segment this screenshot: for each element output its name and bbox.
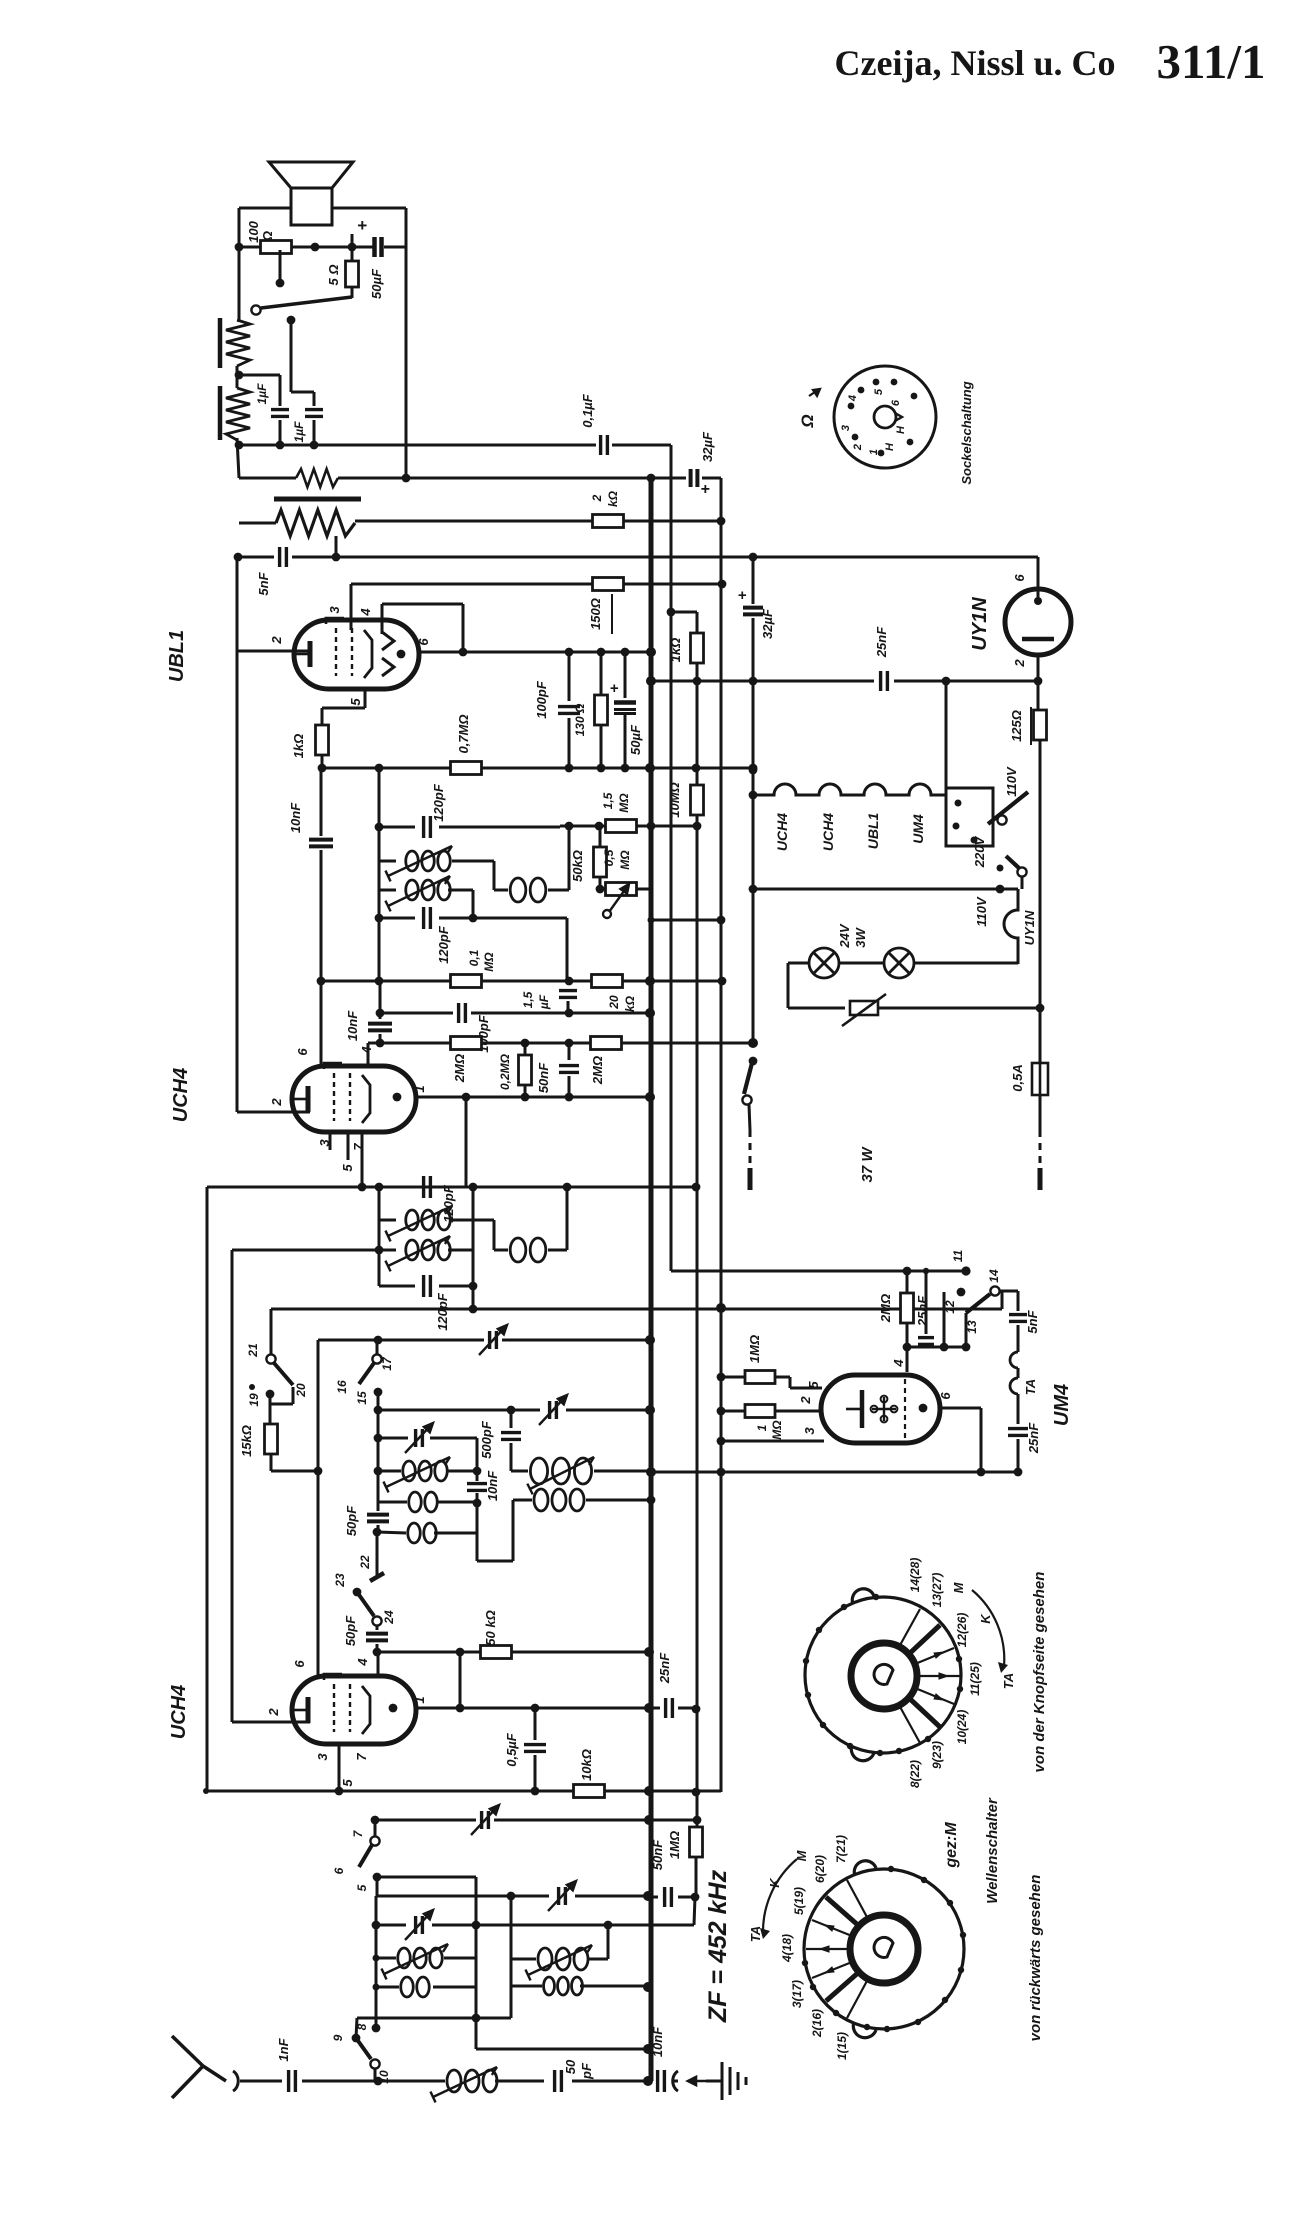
wire coilL1 right lead (444, 1957, 476, 1960)
oscillator coil LW (403, 1461, 447, 1481)
contact aux (249, 1384, 255, 1390)
wire pin5 stub (347, 1132, 350, 1160)
resistor 20kΩ (592, 975, 623, 988)
junction (472, 1921, 481, 1930)
svg-text:500pF: 500pF (479, 1420, 494, 1459)
wire IF1 bottom b (439, 917, 567, 920)
svg-text:2MΩ: 2MΩ (878, 1294, 893, 1323)
svg-text:5(19): 5(19) (792, 1887, 806, 1915)
resistor 1MΩ (RF) (690, 1827, 703, 1857)
antenna (172, 2036, 226, 2098)
svg-text:20: 20 (607, 995, 621, 1010)
svg-text:50pF: 50pF (344, 1505, 359, 1536)
wire 10nF-osc bottom lead (476, 1493, 479, 1503)
wire antenna a (240, 2080, 282, 2083)
wire tap to 1µF (239, 374, 280, 377)
svg-text:120pF: 120pF (441, 1184, 456, 1223)
junction (374, 2077, 383, 2086)
wire 25nF-4 top lead (1017, 1394, 1020, 1424)
junction (311, 243, 320, 252)
wire coilR1 right lead (588, 1958, 608, 1961)
wire contact stub (279, 250, 282, 283)
svg-text:1µF: 1µF (292, 421, 306, 443)
junction (374, 1406, 383, 1415)
contact 9 (352, 2034, 361, 2043)
mains switch pivot (742, 1095, 751, 1104)
wire coilA right lead (447, 1470, 477, 1473)
contact 5 (373, 1873, 382, 1882)
junction (692, 1705, 701, 1714)
svg-text:10nF: 10nF (345, 1010, 360, 1041)
IF1 primary coil (406, 851, 450, 871)
tube UCH4 (mixer) (292, 1676, 416, 1744)
wire stub y920 (651, 919, 721, 922)
disc2 spokes (806, 1880, 868, 2018)
resistor 2MΩ (UM4) (901, 1293, 914, 1323)
resistor 5Ω (346, 261, 359, 287)
junction (647, 822, 656, 831)
socket pins (848, 379, 918, 457)
wire AVC line a (238, 556, 274, 559)
svg-text:13(27): 13(27) (930, 1573, 944, 1608)
wire rail x696 b (696, 815, 699, 1826)
svg-text:4: 4 (358, 608, 373, 617)
junction (749, 791, 758, 800)
junction (718, 580, 727, 589)
junction (749, 885, 758, 894)
wire main chassis bus (649, 478, 654, 2081)
wire feedback2 left lead (494, 1249, 508, 1252)
svg-text:3: 3 (327, 606, 342, 614)
junction (376, 1009, 385, 1018)
svg-text:1MΩ: 1MΩ (667, 1831, 682, 1859)
wire feedback left lead (494, 889, 508, 892)
svg-text:von der Knopfseite gesehen: von der Knopfseite gesehen (1031, 1572, 1048, 1773)
wire x378 seg a (377, 1410, 380, 1438)
svg-text:8(22): 8(22) (908, 1760, 922, 1788)
label underline 125 (1030, 707, 1032, 745)
junction (565, 1009, 574, 1018)
resistor 125Ω (1034, 710, 1047, 740)
svg-text:1,5: 1,5 (521, 991, 535, 1008)
wire feedback line left (239, 477, 296, 480)
wire 1,5µF bottom lead (567, 1001, 570, 1013)
junction (996, 885, 1005, 894)
IF2 feedback coil (510, 1238, 546, 1262)
variable capacitor (RF tuning) (482, 1811, 489, 1829)
wire x376 switch rail (375, 1896, 378, 2028)
UY1N heater bump (1004, 889, 1018, 964)
wire 25nF-3 top lead (925, 1271, 928, 1334)
svg-text:21: 21 (246, 1343, 260, 1358)
svg-text:120pF: 120pF (436, 925, 451, 964)
junction (903, 1267, 912, 1276)
mains lead end left (748, 1168, 753, 1190)
oscillator coupling coil (534, 1489, 584, 1511)
wire osc anode line b (511, 1651, 649, 1654)
wire contact 2 drop (290, 320, 293, 392)
wire 2MΩ bottom lead (906, 1323, 909, 1372)
svg-text:1µF: 1µF (255, 383, 269, 405)
wire rail corner (720, 1791, 723, 1792)
capacitor 1µF (b) (305, 410, 323, 417)
trimmer capacitor (osc LW) arrow (405, 1423, 433, 1453)
wire 1µF-b bottom lead (313, 420, 316, 445)
wire coilE drop (512, 1500, 515, 1561)
svg-text:MΩ: MΩ (482, 952, 496, 972)
heater chain (753, 784, 946, 795)
trimmer capacitor (ant MW) (559, 1887, 566, 1905)
svg-text:9(23): 9(23) (930, 1741, 944, 1769)
wire heater return a (651, 680, 874, 683)
wire UCH4-2 cathode (338, 1744, 341, 1791)
wire UM4 line y1271 (671, 1270, 966, 1273)
svg-text:Wellenschalter: Wellenschalter (984, 1797, 1001, 1904)
svg-text:2(16): 2(16) (810, 2009, 824, 2038)
capacitor 10nF (det) (368, 1024, 392, 1031)
resistor 1kΩ (bus) (691, 633, 704, 663)
wire 1MΩ top lead (696, 1826, 699, 1827)
label underline (611, 594, 613, 634)
junction (314, 1467, 323, 1476)
IF2 primary coil (406, 1210, 450, 1230)
svg-text:Sockelschaltung: Sockelschaltung (959, 381, 974, 484)
junction (621, 648, 630, 657)
wire UM4 pin5 (790, 1387, 822, 1390)
trimmer capacitor (ant LW) arrow (405, 1910, 433, 1940)
junction (693, 677, 702, 686)
capacitor 5nF (280, 547, 287, 567)
wire 50nF-b lead b (678, 1896, 695, 1899)
junction (962, 1343, 971, 1352)
wire UCH4-1 pin4 lead (367, 1043, 370, 1066)
resistor 2MΩ (a) (451, 1037, 482, 1050)
svg-text:+: + (700, 481, 709, 498)
arrow to ground (688, 2077, 706, 2085)
wire 5nF top lead (1017, 1291, 1020, 1311)
capacitor 50pF (b) (366, 1634, 388, 1641)
junction (318, 764, 327, 773)
junction (645, 976, 655, 986)
wire UM4 pin6 lead (940, 1407, 981, 1410)
wire UCH4-1 pin2 (237, 1111, 310, 1114)
capacitor 1nF (289, 2070, 296, 2092)
wire 15kΩ to rail (271, 1470, 318, 1473)
wire trimmer line b (430, 1437, 477, 1440)
wire link y2049 (476, 2048, 648, 2051)
svg-text:UCH4: UCH4 (168, 1685, 190, 1739)
svg-text:120pF: 120pF (431, 783, 446, 822)
wire IF2 left rail (378, 1187, 381, 1286)
svg-text:6: 6 (890, 399, 902, 406)
svg-text:6: 6 (295, 1048, 310, 1056)
selector dot c (971, 837, 978, 844)
wire pin5 jog (322, 707, 365, 710)
wire feedback2 rise (566, 1187, 569, 1250)
disc bump top (852, 1589, 874, 1604)
svg-text:311/1: 311/1 (1157, 34, 1266, 89)
capacitor 10nF (osc) (467, 1484, 487, 1491)
wire coilL1 left lead (376, 1957, 396, 1960)
tube socket diagram (834, 366, 936, 468)
wire mains lead left (749, 1105, 750, 1130)
disc keyhole (874, 1664, 893, 1684)
svg-text:17: 17 (380, 1356, 394, 1371)
wave switch disc (knob side) (805, 1597, 961, 1753)
svg-text:H: H (884, 442, 896, 451)
wire 50kΩ bottom lead (599, 876, 602, 888)
junction (645, 1405, 655, 1415)
junction (456, 1648, 465, 1657)
wire mixer anode (416, 1707, 660, 1710)
wire 100pF top lead (568, 652, 571, 701)
wire left branch (238, 208, 241, 247)
wire 500pF top lead (510, 1410, 513, 1428)
wire 13 stub (965, 1313, 968, 1347)
junction (565, 1093, 574, 1102)
svg-text:25nF: 25nF (657, 1652, 672, 1684)
wire x476 upper (476, 1438, 479, 1481)
junction (375, 1183, 384, 1192)
junction (521, 1039, 530, 1048)
wire x476 ant lower (475, 1925, 478, 2049)
junction (565, 977, 574, 986)
wire fuse line (1039, 740, 1042, 1063)
resistor 50kΩ (osc) (481, 1646, 512, 1659)
svg-text:UCH4: UCH4 (820, 813, 836, 851)
wire UM4 pin3 (721, 1440, 824, 1443)
wire 10nF to UCH4 pin6 (320, 850, 323, 1066)
junction (521, 1093, 530, 1102)
svg-text:120pF: 120pF (435, 1292, 450, 1331)
capacitor 32µF (b) (743, 608, 763, 615)
wire UY1N cathode lead (1037, 655, 1040, 710)
capacitor 120pF (IF2 top) (424, 1176, 431, 1198)
svg-text:2: 2 (269, 1098, 284, 1107)
svg-text:1kΩ: 1kΩ (668, 638, 683, 663)
junction (648, 917, 655, 924)
wire TA lead (1017, 1368, 1020, 1378)
junction (531, 1787, 540, 1796)
wire grid rail left (236, 651, 239, 1112)
svg-text:0,2MΩ: 0,2MΩ (498, 1053, 512, 1090)
contact 15 (374, 1388, 383, 1397)
wire 5Ω top lead (351, 234, 354, 261)
disc2 keyhole (874, 1937, 893, 1957)
wire osc tank line a (378, 1409, 540, 1412)
wire coilA left lead (378, 1470, 401, 1473)
disc2 bump top (854, 1861, 876, 1876)
selector pivot 2 (1017, 867, 1026, 876)
svg-text:5: 5 (340, 1779, 355, 1787)
wire 50nF bottom lead (568, 1076, 571, 1097)
wire between pot halves (236, 366, 239, 388)
IF2 secondary coil (406, 1240, 450, 1260)
wire to 0,5MΩ (600, 888, 606, 891)
svg-text:0,1µF: 0,1µF (580, 393, 595, 428)
resistor 1MΩ (UM4 b) (745, 1405, 775, 1418)
resistor 1kΩ (UBL1 cathode) (316, 725, 329, 755)
mains lead end right (1038, 1168, 1043, 1190)
junction (459, 648, 468, 657)
svg-text:1: 1 (868, 449, 880, 455)
svg-text:10nF: 10nF (288, 802, 303, 833)
wire tone line (239, 444, 596, 447)
svg-text:kΩ: kΩ (623, 995, 637, 1012)
svg-text:0,1: 0,1 (467, 949, 481, 966)
wire 5nF bottom lead (1017, 1325, 1020, 1352)
junction (469, 1183, 478, 1192)
svg-text:50nF: 50nF (650, 1839, 665, 1870)
wire antenna c (378, 2080, 445, 2083)
svg-text:32µF: 32µF (700, 431, 715, 462)
wire coilR1 left lead (511, 1958, 536, 1961)
wire IF1 top b (439, 826, 560, 829)
svg-text:K: K (978, 1613, 993, 1624)
wire speaker top right (332, 207, 406, 210)
UM4 internals (846, 1379, 905, 1440)
junction (693, 1816, 702, 1825)
svg-text:5nF: 5nF (1025, 1309, 1040, 1333)
wire osc anode line a (377, 1651, 481, 1654)
wire hop b (TA) (1010, 1378, 1018, 1394)
wire RF line a (375, 1819, 476, 1822)
junction (749, 677, 758, 686)
wire lamps a (788, 962, 809, 965)
wire to contact 22 (376, 1532, 379, 1577)
wire coilR2 left lead (511, 1985, 542, 1988)
wire trimmer line a (378, 1437, 408, 1440)
junction (507, 1406, 516, 1415)
junction (646, 676, 656, 686)
selector pivot (997, 815, 1006, 824)
wire x753 b (752, 618, 755, 1046)
tuning core (385, 1206, 452, 1241)
wire 0,5µF top lead (534, 1708, 537, 1740)
trimmer capacitor (ant MW) arrow (548, 1881, 576, 1911)
svg-text:15kΩ: 15kΩ (239, 1425, 254, 1457)
capacitor 32µF (a) (691, 469, 698, 487)
wire 1µF-b top lead (313, 392, 316, 406)
wire right branch (405, 208, 408, 478)
wire 1µF-a top lead (279, 375, 282, 406)
svg-text:15: 15 (355, 1391, 369, 1405)
contact 8 (372, 2024, 381, 2033)
junction (469, 1305, 478, 1314)
wire IF1 bottom a (379, 917, 415, 920)
svg-text:6: 6 (292, 1660, 307, 1668)
svg-text:3: 3 (802, 1427, 817, 1435)
switch pivot 14 (990, 1286, 999, 1295)
wire coilL2 left lead (376, 1986, 399, 1989)
wire dropper to AVC line (335, 536, 338, 557)
switch pivot 7 (370, 1836, 379, 1845)
wire link y2018 (357, 2017, 511, 2020)
oscillator coil MW (530, 1458, 591, 1484)
svg-text:Czeija, Nissl u. Co: Czeija, Nissl u. Co (835, 43, 1116, 83)
selector dot d (997, 865, 1004, 872)
wire feedback right lead (548, 889, 569, 892)
resistor 1MΩ (UM4 a) (745, 1371, 775, 1384)
switch pivot 10 (370, 2059, 379, 2068)
resistor (feedback zigzag) (296, 469, 338, 487)
junction (462, 1093, 471, 1102)
junction (646, 1467, 656, 1477)
wire padder line a (318, 1339, 484, 1342)
svg-text:6: 6 (1012, 574, 1027, 582)
wire coilL2 right lead (433, 1986, 476, 1989)
svg-text:20: 20 (294, 1383, 308, 1398)
svg-text:5: 5 (340, 1164, 355, 1172)
junction (597, 764, 606, 773)
wire hop a (1010, 1352, 1018, 1368)
junction (1014, 1468, 1023, 1477)
svg-text:150Ω: 150Ω (588, 598, 603, 630)
tube UCH4 (IF) (292, 1066, 416, 1132)
svg-text:22: 22 (358, 1555, 372, 1570)
wire dropper tap line (355, 520, 593, 523)
wire IF2 bottom b (439, 1285, 473, 1288)
UCH4-1 anode dot (393, 1093, 402, 1102)
svg-text:3: 3 (840, 425, 852, 431)
wire 5Ω bottom lead (351, 287, 354, 298)
wire osc grid rail x318 (317, 1340, 320, 1676)
junction (565, 1039, 574, 1048)
wire 14 to 5nF (1000, 1290, 1018, 1293)
junction (235, 441, 244, 450)
wire det line a (380, 1012, 453, 1015)
wire to right branch (384, 246, 406, 249)
svg-text:3W: 3W (853, 927, 868, 948)
svg-text:1nF: 1nF (276, 2037, 291, 2061)
capacitor 0,5µF (524, 1745, 546, 1752)
wire 25nF to rail (678, 1707, 696, 1710)
wire coilB right lead (437, 1501, 477, 1504)
junction (1034, 677, 1043, 686)
wire UCH4-2 pin4 lead (377, 1652, 380, 1676)
osc coupling coil LW (409, 1492, 437, 1512)
svg-text:10nF: 10nF (650, 2026, 665, 2057)
antenna coil MW (538, 1948, 588, 1970)
dial lamp b (884, 948, 914, 978)
wire rail x207 (206, 1187, 209, 1791)
tuning core (525, 1945, 592, 1980)
svg-text:8: 8 (355, 2023, 369, 2030)
wire feedback line right (338, 477, 686, 480)
wire 50kΩ top lead (599, 826, 602, 848)
disc2 bump bottom (853, 2022, 876, 2038)
junction (595, 822, 604, 831)
junction (645, 763, 655, 773)
wire coil1 drop (493, 861, 496, 890)
wire coil1 right lead (452, 860, 494, 863)
svg-text:3(17): 3(17) (790, 1980, 804, 2008)
resistor 15kΩ (265, 1424, 278, 1454)
wire antenna b (302, 2080, 375, 2083)
wire 0,2MΩ bottom lead (524, 1086, 527, 1097)
switch pivot (251, 305, 260, 314)
dial lamp a (809, 948, 839, 978)
wire coil3 right lead (452, 1219, 494, 1222)
wire coilE left lead (513, 1499, 532, 1502)
wire mains lead right (1039, 1095, 1042, 1130)
wire lamp drop (787, 963, 790, 1008)
junction (375, 1246, 384, 1255)
wire 130Ω bottom lead (600, 725, 603, 768)
antenna coupling MW (544, 1977, 583, 1995)
svg-text:6: 6 (416, 638, 431, 646)
junction (375, 977, 384, 986)
